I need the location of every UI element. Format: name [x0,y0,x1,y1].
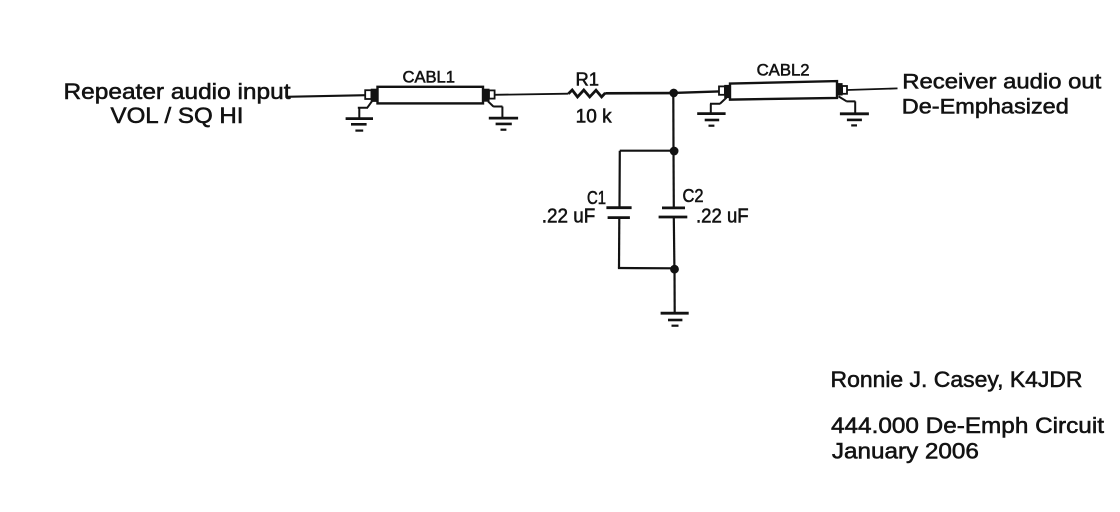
svg-text:R1: R1 [576,70,600,90]
svg-text:C2: C2 [683,186,704,206]
svg-text:VOL / SQ HI: VOL / SQ HI [111,103,244,128]
svg-text:10 k: 10 k [576,106,612,127]
svg-text:Receiver audio out: Receiver audio out [902,71,1101,94]
svg-text:January 2006: January 2006 [832,439,979,464]
svg-text:CABL2: CABL2 [757,61,810,80]
svg-text:444.000 De-Emph Circuit: 444.000 De-Emph Circuit [831,413,1104,438]
svg-text:De-Emphasized: De-Emphasized [902,95,1069,118]
svg-text:Ronnie J. Casey, K4JDR: Ronnie J. Casey, K4JDR [831,367,1083,392]
svg-text:.22 uF: .22 uF [542,206,596,228]
svg-text:CABL1: CABL1 [403,68,456,87]
svg-text:.22 uF: .22 uF [696,206,749,228]
svg-text:Repeater audio input: Repeater audio input [64,79,291,104]
